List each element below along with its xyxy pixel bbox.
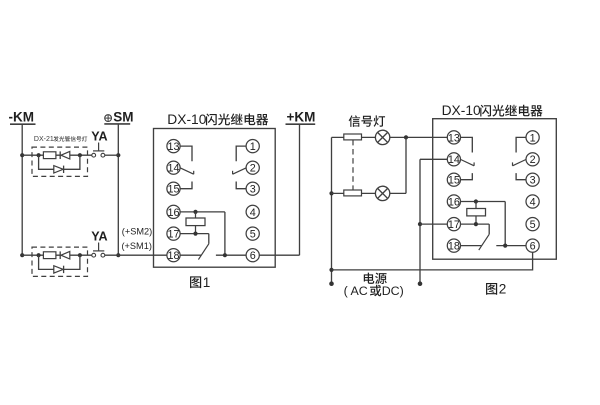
junction on pin17 wire (fig.2) (474, 222, 478, 226)
bus +KM vertical wire (299, 125, 301, 255)
pin 2 (fig.1) (246, 161, 259, 175)
svg-text:6: 6 (530, 241, 536, 253)
net label +KM (286, 110, 316, 125)
svg-text:15: 15 (448, 175, 460, 187)
svg-text:+KM: +KM (287, 110, 316, 125)
svg-text:(+SM2): (+SM2) (122, 226, 152, 236)
resistor lamp row2 (fig.2) (344, 190, 362, 196)
svg-text:(+SM1): (+SM1) (122, 241, 152, 251)
power terminal right (fig.2) (418, 281, 423, 286)
svg-text:-KM: -KM (9, 110, 35, 125)
bus +SM (vertical wire) (117, 125, 119, 256)
wire pin13 to contact (fig.2) (461, 137, 473, 152)
contact blade from pin14 (fig.2) (461, 160, 474, 166)
wire link to +SM bus row1 (105, 154, 119, 156)
contact blade pin18 (fig.2) (479, 234, 489, 250)
svg-text:4: 4 (530, 196, 536, 208)
svg-text:1: 1 (530, 132, 536, 144)
junction +SM row2 (116, 253, 120, 257)
strap YA terminals upper (92, 143, 105, 158)
wire link through +SM bus to relay pin 18 (105, 254, 167, 256)
junction lamp bus row2 (fig.2) (329, 191, 333, 195)
flasher resistor element (fig.1) (186, 212, 205, 234)
pin 18 (fig.2) (447, 239, 460, 253)
contact blade from pin2 (fig.1) (233, 168, 246, 174)
pin 14 (fig.1) (167, 161, 180, 175)
svg-text:13: 13 (167, 141, 179, 153)
junction +SM row1 (116, 153, 120, 157)
wire pin1 to contact (fig.2) (516, 137, 526, 152)
junction right inside lamp unit lower (78, 253, 82, 257)
wire lamp row2 riser (fig.2) (405, 137, 407, 193)
svg-text:6: 6 (250, 250, 256, 262)
dashed enclosure DX-21 lamp unit upper (32, 147, 88, 176)
relay U2 DX-10 flasher relay case (fig.2) (433, 119, 557, 260)
svg-text:18: 18 (448, 241, 460, 253)
wire row from -KM bus to link lower (22, 254, 92, 256)
dashed tie between lamp branches (fig.2) (352, 140, 354, 190)
svg-text:4: 4 (250, 207, 256, 219)
caption fig.2 (486, 282, 506, 297)
svg-text:2: 2 (250, 163, 256, 175)
svg-text:16: 16 (448, 196, 460, 208)
wire pin3 to contact (fig.1) (236, 182, 246, 189)
wire pin15 to contact (fig.2) (461, 173, 473, 180)
junction left inside lamp unit upper (37, 153, 41, 157)
svg-text:17: 17 (448, 219, 460, 231)
wire lamp row2 (fig.2) (332, 192, 407, 194)
fixed contact stem from pin17 branch (fig.1) (208, 234, 210, 244)
svg-text:3: 3 (250, 184, 256, 196)
wire pin13 to contact (fig.1) (180, 146, 192, 161)
antiparallel protection diode of lamp unit lower (39, 255, 80, 273)
wire fixed contact to pin6 (fig.1) (216, 254, 246, 256)
pin 1 (fig.1) (246, 140, 259, 154)
LED diode (cathode left) of lamp unit lower (60, 251, 70, 259)
svg-text:DX-10: DX-10 (442, 103, 481, 118)
svg-text:17: 17 (167, 229, 179, 241)
wire down to pin6 node (fig.1) (224, 212, 226, 255)
junction right inside lamp unit upper (78, 153, 82, 157)
contact blade from pin14 (fig.1) (180, 168, 193, 174)
pin 4 (fig.2) (526, 195, 539, 209)
wire pin3 to contact (fig.2) (516, 173, 526, 180)
pin 16 (fig.2) (447, 195, 460, 209)
strap YA terminals lower (92, 243, 105, 258)
contact blade pin18 (fig.1) (198, 244, 208, 260)
junction left inside lamp unit lower (37, 253, 41, 257)
bus -KM (left vertical wire) (21, 125, 23, 255)
svg-text:15: 15 (167, 184, 179, 196)
svg-text:DC): DC) (382, 284, 404, 298)
pin 17 (fig.2) (447, 218, 460, 232)
pin 13 (fig.2) (447, 131, 460, 145)
svg-text:5: 5 (250, 229, 256, 241)
resistor of lamp unit upper (43, 152, 56, 159)
svg-text:14: 14 (167, 163, 179, 175)
junction on pin17 wire (fig.1) (193, 232, 197, 236)
svg-text:5: 5 (530, 219, 536, 231)
junction lamp row1 (fig.2) (404, 135, 408, 139)
resistor lamp row1 (fig.2) (344, 134, 362, 140)
wire pin1 to contact (fig.1) (236, 146, 246, 161)
svg-text:1: 1 (203, 275, 211, 290)
LED diode (cathode left) of lamp unit upper (60, 151, 70, 159)
svg-text:DX-21: DX-21 (34, 136, 54, 143)
net label -KM (9, 110, 36, 125)
label DX-10 flash relay title (fig.1) (167, 112, 268, 127)
pin 5 (fig.2) (526, 218, 539, 232)
wire pin18 stub (fig.2) (461, 245, 482, 247)
lamp branch bus (left vertical, fig.2) (331, 137, 333, 283)
svg-text:DX-10: DX-10 (167, 112, 206, 127)
pin 6 (fig.2) (526, 239, 539, 253)
junction at pin6 wire (fig.1) (223, 253, 227, 257)
label ( AC or DC ) (344, 284, 404, 298)
junction lamp bus bottom wire (fig.2) (329, 268, 333, 272)
feeder vertical wire to power (fig.2) (419, 159, 421, 283)
pin 2 (fig.2) (526, 153, 539, 167)
pin 18 (fig.1) (167, 249, 180, 263)
wire pin17 horizontal (fig.1) (180, 233, 209, 235)
svg-text:YA: YA (91, 130, 107, 144)
svg-text:YA: YA (91, 230, 107, 244)
label signal lamps (Chinese) (349, 115, 385, 127)
wire pin15 to contact (fig.1) (180, 182, 192, 189)
junction feeder and pin17 wire (fig.2) (418, 222, 422, 226)
pin 14 (fig.2) (447, 153, 460, 167)
antiparallel protection diode of lamp unit upper (39, 155, 80, 173)
svg-text:SM: SM (113, 110, 133, 125)
wire pin16 horizontal (fig.1) (180, 211, 225, 213)
junction -KM row2 (20, 253, 24, 257)
wire down to pin6 node (fig.2) (504, 202, 506, 246)
junction on pin16 wire (fig.2) (474, 199, 478, 203)
pin 1 (fig.2) (526, 131, 539, 145)
svg-text:16: 16 (167, 207, 179, 219)
wire pin6 out to +KM bus (fig.1) (259, 254, 299, 256)
net label +SM with circled-plus (104, 110, 133, 125)
pin 15 (fig.1) (167, 182, 180, 196)
label DX-10 flash relay title (fig.2) (442, 103, 543, 118)
wire pin18 stub (fig.1) (180, 254, 201, 256)
wire pin17 out (fig.2) (420, 223, 447, 225)
junction on pin16 wire (fig.1) (193, 210, 197, 214)
svg-text:1: 1 (250, 141, 256, 153)
resistor of lamp unit lower (43, 252, 56, 259)
svg-text:2: 2 (499, 282, 507, 297)
pin 17 (fig.1) (167, 227, 180, 241)
power terminal left (fig.2) (329, 281, 334, 286)
lamp L1 (fig.2) (375, 130, 389, 144)
junction at pin6 wire (fig.2) (503, 244, 507, 248)
wire pin14 out to feeder (fig.2) (420, 158, 447, 160)
pin 15 (fig.2) (447, 173, 460, 187)
svg-text:14: 14 (448, 154, 460, 166)
svg-text:13: 13 (448, 132, 460, 144)
wire pin17 horizontal inside (fig.2) (461, 223, 490, 225)
contact blade from pin2 (fig.2) (513, 160, 526, 166)
svg-text:2: 2 (530, 154, 536, 166)
bottom wire pin6 to lamp bus (fig.2) (332, 252, 533, 270)
svg-text:( AC: ( AC (344, 284, 368, 298)
dashed enclosure DX-21 lamp unit lower (32, 247, 88, 276)
wire fixed contact to pin6 (fig.2) (496, 245, 526, 247)
relay U1 DX-10 flasher relay case (fig.1) (154, 129, 276, 268)
label power supply (Chinese) (364, 273, 387, 284)
svg-text:3: 3 (530, 175, 536, 187)
pin 5 (fig.1) (246, 227, 259, 241)
flasher resistor element (fig.2) (467, 202, 486, 225)
label DX-21 LED signal lamp (Chinese) (34, 136, 87, 143)
pin 16 (fig.1) (167, 205, 180, 219)
svg-text:18: 18 (167, 250, 179, 262)
pin 3 (fig.2) (526, 173, 539, 187)
caption fig.1 (190, 275, 210, 290)
junction -KM row1 (20, 153, 24, 157)
pin 4 (fig.1) (246, 205, 259, 219)
wire pin16 horizontal (fig.2) (461, 201, 506, 203)
pin 6 (fig.1) (246, 249, 259, 263)
lamp L2 (fig.2) (375, 186, 389, 200)
wire row from -KM bus to link upper (22, 154, 92, 156)
pin 3 (fig.1) (246, 182, 259, 196)
fixed contact stem from pin17 branch (fig.2) (488, 224, 490, 234)
pin 13 (fig.1) (167, 140, 180, 154)
wire lamp row1 to pin13 (fig.2) (332, 136, 448, 138)
